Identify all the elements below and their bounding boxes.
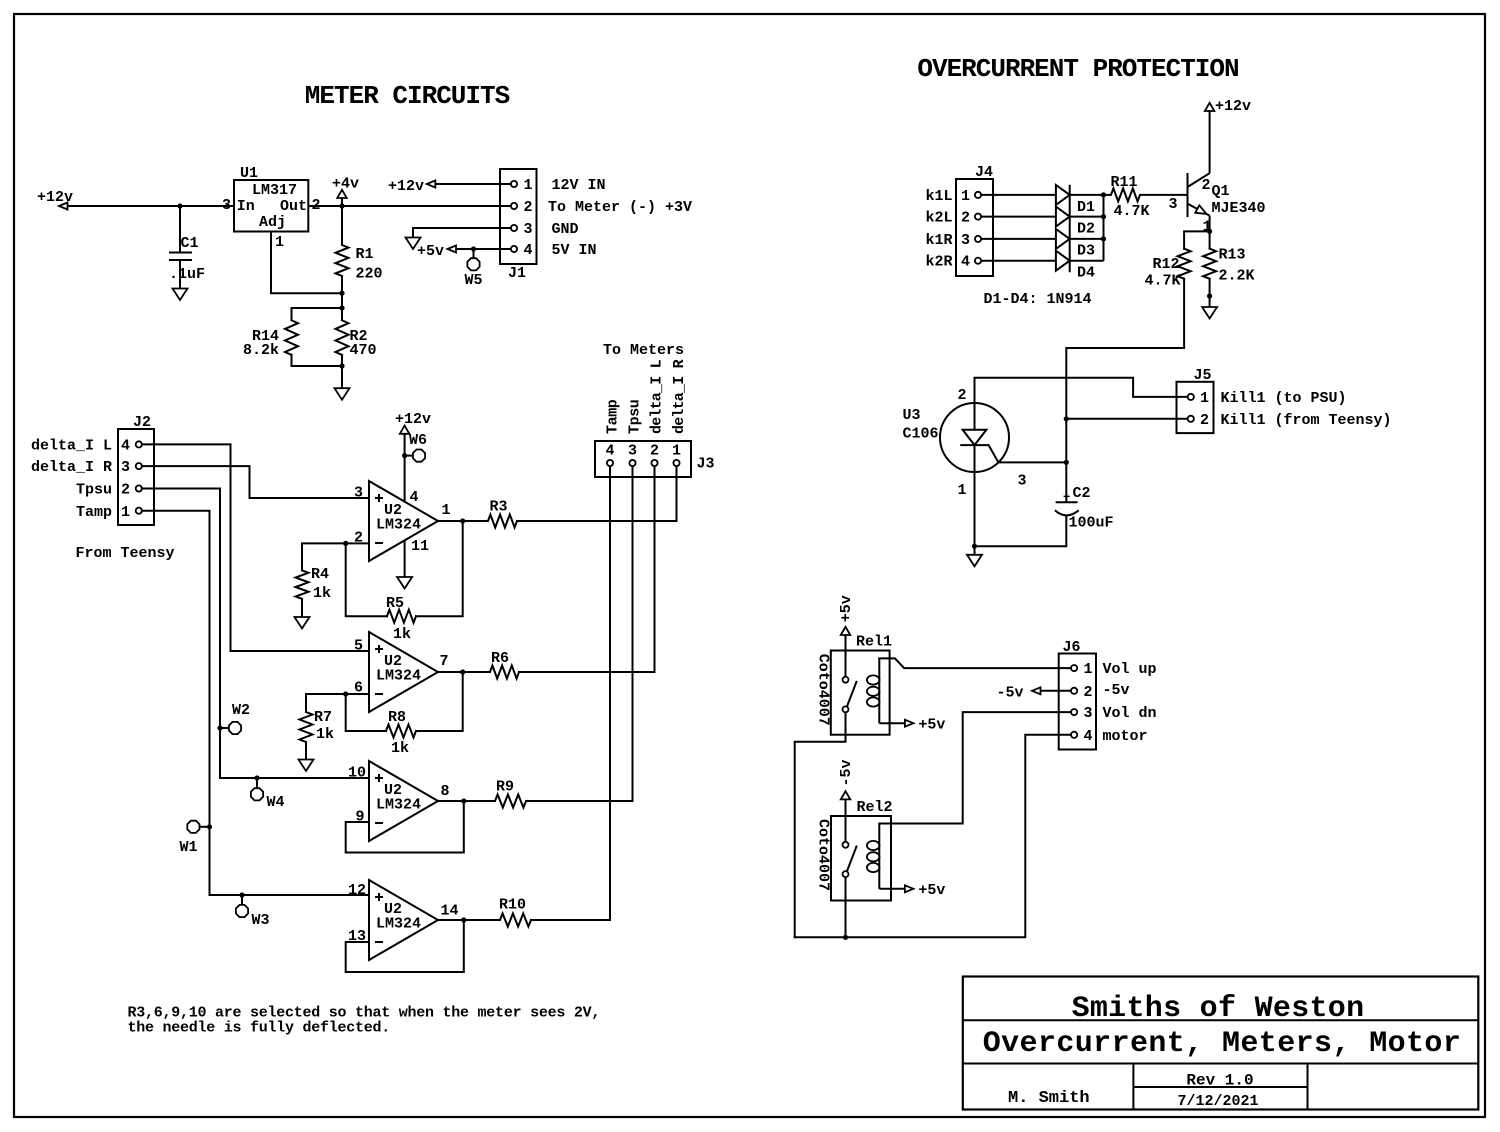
wire R12 down xyxy=(1066,279,1184,419)
junction xyxy=(339,203,344,208)
wire xyxy=(1140,194,1188,196)
svg-text:1k: 1k xyxy=(393,626,411,643)
title block divider xyxy=(1307,1064,1309,1110)
thyristor triangle xyxy=(963,430,987,445)
junction xyxy=(471,246,476,251)
svg-text:2: 2 xyxy=(961,210,970,227)
pin circle J4-2 xyxy=(975,214,981,220)
junction xyxy=(207,824,212,829)
resistor R8 xyxy=(386,725,416,738)
svg-text:7/12/2021: 7/12/2021 xyxy=(1177,1093,1258,1110)
wire output xyxy=(438,800,495,802)
junction xyxy=(1101,192,1106,197)
wire xyxy=(200,826,210,828)
svg-text:4: 4 xyxy=(605,443,614,460)
svg-text:Rev 1.0: Rev 1.0 xyxy=(1186,1072,1253,1090)
svg-text:the needle is fully deflected.: the needle is fully deflected. xyxy=(128,1020,391,1037)
svg-text:Out: Out xyxy=(280,198,307,215)
svg-text:R7: R7 xyxy=(314,709,332,726)
svg-text:3: 3 xyxy=(524,221,533,238)
resistor R12 xyxy=(1178,249,1191,279)
junction xyxy=(177,203,182,208)
svg-text:+5v: +5v xyxy=(417,243,444,260)
jumper W6 xyxy=(413,450,425,462)
svg-text:GND: GND xyxy=(552,221,579,238)
svg-text:R12: R12 xyxy=(1152,256,1179,273)
svg-text:k2L: k2L xyxy=(926,210,953,227)
wire xyxy=(473,249,475,258)
svg-text:1: 1 xyxy=(442,502,451,519)
svg-text:MJE340: MJE340 xyxy=(1212,200,1266,217)
svg-text:2: 2 xyxy=(650,443,659,460)
resistor R11 xyxy=(1111,188,1140,201)
svg-text:3: 3 xyxy=(121,459,130,476)
svg-text:D2: D2 xyxy=(1077,221,1095,238)
pin circle J1-4 xyxy=(511,246,517,252)
svg-text:R1: R1 xyxy=(356,246,374,263)
wire output xyxy=(438,520,488,522)
wire xyxy=(519,466,655,672)
svg-text:12: 12 xyxy=(348,882,366,899)
wire xyxy=(341,308,343,320)
wire xyxy=(341,293,343,308)
wire xyxy=(981,194,1056,196)
svg-text:From Teensy: From Teensy xyxy=(76,545,175,562)
junction xyxy=(254,775,259,780)
wire xyxy=(1070,238,1104,240)
svg-text:7: 7 xyxy=(440,653,449,670)
svg-text:LM324: LM324 xyxy=(376,517,421,534)
power -5v arrow xyxy=(841,791,851,799)
wire xyxy=(981,238,1056,240)
svg-text:Vol dn: Vol dn xyxy=(1103,705,1157,722)
junction xyxy=(1101,236,1106,241)
junction xyxy=(460,669,465,674)
diode D1 xyxy=(1056,185,1070,205)
ground xyxy=(173,289,188,301)
wire xyxy=(1065,419,1067,463)
svg-text:1: 1 xyxy=(524,177,533,194)
title block divider xyxy=(963,1063,1479,1065)
title block divider xyxy=(963,1019,1479,1021)
svg-text:R3: R3 xyxy=(490,499,508,516)
svg-text:1: 1 xyxy=(1084,661,1093,678)
pin circle J4-4 xyxy=(975,258,981,264)
wire xyxy=(341,366,343,388)
wire xyxy=(879,658,1071,668)
svg-text:Coto4007: Coto4007 xyxy=(815,654,832,726)
op-amp U1 LM317 box xyxy=(234,180,308,232)
wire xyxy=(975,516,1067,547)
svg-text:Tamp: Tamp xyxy=(76,504,112,521)
svg-text:M. Smith: M. Smith xyxy=(1008,1089,1090,1108)
ground xyxy=(295,617,310,629)
svg-text:12V IN: 12V IN xyxy=(552,177,606,194)
wire xyxy=(302,543,346,570)
junction xyxy=(461,917,466,922)
svg-text:R4: R4 xyxy=(311,566,329,583)
svg-text:Q1: Q1 xyxy=(1212,183,1230,200)
pin circle J6-3 xyxy=(1071,709,1077,715)
junction xyxy=(402,453,407,458)
coil Rel1 xyxy=(878,658,880,723)
jumper W1 xyxy=(187,821,199,833)
svg-text:delta_I L: delta_I L xyxy=(31,438,112,455)
pin circle J6-2 xyxy=(1071,688,1077,694)
switch blade xyxy=(847,846,857,872)
wire xyxy=(1209,231,1211,248)
svg-text:+5v: +5v xyxy=(838,595,855,622)
svg-text:4: 4 xyxy=(524,242,533,259)
ground xyxy=(299,760,314,772)
svg-text:D3: D3 xyxy=(1077,243,1095,260)
svg-text:delta_I R: delta_I R xyxy=(31,459,112,476)
wire minus in xyxy=(346,941,369,943)
junction xyxy=(1101,214,1106,219)
svg-text:1: 1 xyxy=(672,443,681,460)
svg-text:3: 3 xyxy=(1084,705,1093,722)
resistor R13 xyxy=(1203,249,1216,279)
wire xyxy=(845,877,847,937)
svg-text:Kill1 (from Teensy): Kill1 (from Teensy) xyxy=(1221,412,1392,429)
wire emitter xyxy=(1209,216,1211,232)
wire xyxy=(292,355,343,366)
svg-text:-5v: -5v xyxy=(997,685,1024,702)
svg-text:Vol up: Vol up xyxy=(1103,661,1157,678)
svg-text:1: 1 xyxy=(1200,390,1209,407)
wire anode xyxy=(975,378,1188,430)
svg-text:+12v: +12v xyxy=(1215,98,1251,115)
power +5v arrow xyxy=(905,885,914,892)
wire output xyxy=(438,671,490,673)
svg-text:470: 470 xyxy=(350,342,377,359)
node -5v arrow xyxy=(1032,687,1041,694)
svg-text:1: 1 xyxy=(961,188,970,205)
resistor R7 xyxy=(300,712,313,742)
svg-text:In: In xyxy=(237,198,255,215)
svg-text:C106: C106 xyxy=(903,426,939,443)
junction xyxy=(339,305,344,310)
wire xyxy=(413,228,511,238)
svg-text:1: 1 xyxy=(121,504,130,521)
pin circle J2-4 xyxy=(136,441,142,447)
pin circle J3-2 xyxy=(651,460,657,466)
node +12v arrow xyxy=(59,203,68,210)
wire xyxy=(879,722,905,724)
svg-text:R9: R9 xyxy=(496,779,514,796)
svg-text:W6: W6 xyxy=(409,432,427,449)
ground xyxy=(335,388,350,400)
svg-text:4: 4 xyxy=(410,489,419,506)
svg-text:W1: W1 xyxy=(180,839,198,856)
wire xyxy=(1070,216,1104,218)
svg-text:4.7K: 4.7K xyxy=(1114,203,1150,220)
wire collector xyxy=(1209,111,1211,173)
svg-text:Tpsu: Tpsu xyxy=(76,482,112,499)
resistor R5 xyxy=(387,610,416,623)
ground xyxy=(397,577,412,589)
svg-text:11: 11 xyxy=(411,538,429,555)
svg-text:Adj: Adj xyxy=(259,214,286,231)
wire xyxy=(1209,296,1211,307)
svg-text:D4: D4 xyxy=(1077,265,1095,282)
wire xyxy=(974,546,976,555)
node +12v arrow xyxy=(427,181,436,188)
junction xyxy=(1207,229,1212,234)
svg-text:motor: motor xyxy=(1103,728,1148,745)
svg-text:2: 2 xyxy=(1084,684,1093,701)
capacitor C2 arc xyxy=(1055,510,1079,515)
wire xyxy=(1070,194,1104,196)
svg-text:D1-D4: 1N914: D1-D4: 1N914 xyxy=(984,291,1092,308)
svg-text:Smiths of Weston: Smiths of Weston xyxy=(1072,992,1365,1026)
svg-text:+5v: +5v xyxy=(918,717,945,734)
svg-text:2.2K: 2.2K xyxy=(1219,268,1255,285)
power +4v xyxy=(337,190,347,198)
wire xyxy=(241,895,243,904)
svg-text:8: 8 xyxy=(441,783,450,800)
wire xyxy=(981,260,1056,262)
wire feedback xyxy=(346,694,386,731)
wire xyxy=(1184,231,1210,248)
wire xyxy=(526,466,633,801)
ground xyxy=(967,555,982,567)
pin circle J1-2 xyxy=(511,203,517,209)
connector J5 box xyxy=(1177,382,1214,433)
svg-text:4: 4 xyxy=(121,438,130,455)
thyristor cathode bar xyxy=(960,444,988,446)
svg-text:Kill1 (to PSU): Kill1 (to PSU) xyxy=(1221,390,1347,407)
pin circle J3-1 xyxy=(673,460,679,466)
diode D4 xyxy=(1056,251,1070,271)
transistor Q1 xyxy=(1187,173,1189,217)
svg-text:U1: U1 xyxy=(240,165,258,182)
wire minus in xyxy=(346,693,369,695)
power +5v arrow xyxy=(841,627,851,635)
resistor R14 xyxy=(285,320,298,355)
capacitor C2 plate xyxy=(1056,501,1078,503)
svg-text:Coto4007: Coto4007 xyxy=(815,819,832,891)
svg-text:delta_I L: delta_I L xyxy=(649,359,666,434)
svg-text:5: 5 xyxy=(354,638,363,655)
pin circle J3-3 xyxy=(629,460,635,466)
junction xyxy=(343,691,348,696)
wire xyxy=(1065,462,1067,502)
wire xyxy=(1209,279,1211,296)
junction xyxy=(1207,293,1212,298)
resistor R10 xyxy=(500,914,531,927)
svg-text:To Meters: To Meters xyxy=(603,342,684,359)
svg-text:To Meter (-) +3V: To Meter (-) +3V xyxy=(548,199,692,216)
connector J3 box xyxy=(595,441,691,477)
pin circle J2-1 xyxy=(136,508,142,514)
svg-text:+12v: +12v xyxy=(388,178,424,195)
wire xyxy=(256,778,258,788)
pin circle J6-4 xyxy=(1071,732,1077,738)
wire xyxy=(301,599,303,617)
svg-text:OVERCURRENT PROTECTION: OVERCURRENT PROTECTION xyxy=(917,54,1238,84)
svg-text:R11: R11 xyxy=(1111,174,1138,191)
pin circle J4-1 xyxy=(975,192,981,198)
diode D2 xyxy=(1056,207,1070,227)
svg-text:2: 2 xyxy=(524,199,533,216)
svg-text:R8: R8 xyxy=(388,709,406,726)
resistor R4 xyxy=(296,570,309,599)
wire xyxy=(416,672,463,731)
jumper W5 xyxy=(467,258,479,270)
svg-text:U3: U3 xyxy=(903,407,921,424)
pin contact xyxy=(843,842,849,848)
switch blade xyxy=(847,681,857,707)
svg-text:+12v: +12v xyxy=(395,411,431,428)
resistor R9 xyxy=(495,795,526,808)
wire output xyxy=(438,919,500,921)
svg-text:R6: R6 xyxy=(491,650,509,667)
wire rail xyxy=(1103,195,1105,261)
svg-text:J1: J1 xyxy=(508,265,526,282)
svg-text:W5: W5 xyxy=(465,272,483,289)
svg-text:R13: R13 xyxy=(1219,247,1246,264)
svg-text:100uF: 100uF xyxy=(1069,515,1114,532)
ground xyxy=(406,238,421,250)
svg-text:3: 3 xyxy=(628,443,637,460)
power pin 4 wire xyxy=(404,434,406,502)
pin circle J1-3 xyxy=(511,225,517,231)
wire delta_I R xyxy=(142,466,369,498)
jumper W3 xyxy=(236,905,248,917)
pin circle J2-3 xyxy=(136,463,142,469)
junction xyxy=(343,541,348,546)
pin circle J1-1 xyxy=(511,181,517,187)
svg-text:J2: J2 xyxy=(133,414,151,431)
thyristor U3 circle xyxy=(940,403,1009,472)
svg-text:Tamp: Tamp xyxy=(605,399,622,434)
wire Tpsu xyxy=(142,489,369,779)
svg-text:k2R: k2R xyxy=(926,254,953,271)
svg-text:2: 2 xyxy=(121,482,130,499)
svg-text:1k: 1k xyxy=(313,585,331,602)
wire xyxy=(845,799,847,841)
junction xyxy=(339,291,344,296)
resistor R1 xyxy=(336,245,349,276)
power +5v arrow xyxy=(905,720,914,727)
wire xyxy=(68,205,235,207)
svg-text:-5v: -5v xyxy=(838,759,855,786)
wire xyxy=(795,712,846,937)
pin circle J4-3 xyxy=(975,236,981,242)
wire xyxy=(405,455,413,457)
wire minus in xyxy=(346,821,369,823)
wire xyxy=(517,466,677,521)
title block divider xyxy=(1132,1064,1134,1110)
wire xyxy=(531,466,610,920)
pin circle J5-1 xyxy=(1188,394,1194,400)
svg-text:3: 3 xyxy=(1018,473,1027,490)
wire xyxy=(341,206,343,245)
wire xyxy=(845,635,847,677)
wire xyxy=(306,694,346,712)
wire xyxy=(308,205,511,207)
junction xyxy=(972,544,977,549)
wire minus in xyxy=(346,542,369,544)
svg-text:D1: D1 xyxy=(1077,199,1095,216)
op-amp U2 section B xyxy=(369,632,438,712)
svg-text:W3: W3 xyxy=(252,912,270,929)
svg-text:J3: J3 xyxy=(697,456,715,473)
connector J4 box xyxy=(956,179,993,276)
wire xyxy=(292,308,343,320)
wire xyxy=(220,727,229,729)
junction xyxy=(1064,460,1069,465)
ground xyxy=(1202,307,1217,319)
junction xyxy=(217,725,222,730)
junction xyxy=(460,518,465,523)
svg-text:14: 14 xyxy=(441,903,459,920)
junction xyxy=(843,935,848,940)
svg-text:delta_I R: delta_I R xyxy=(671,359,688,434)
wire xyxy=(879,888,905,890)
svg-text:3: 3 xyxy=(1169,196,1178,213)
svg-text:LM317: LM317 xyxy=(252,182,297,199)
svg-text:Rel1: Rel1 xyxy=(856,634,892,651)
wire xyxy=(305,742,307,760)
connector J6 box xyxy=(1059,654,1096,750)
pin contact xyxy=(843,871,849,877)
svg-text:4: 4 xyxy=(1084,728,1093,745)
svg-text:W4: W4 xyxy=(267,794,285,811)
wire delta_I L xyxy=(142,444,369,651)
svg-text:R5: R5 xyxy=(386,595,404,612)
svg-text:3: 3 xyxy=(222,197,231,214)
relay Rel2 box xyxy=(831,816,891,901)
wire feedback xyxy=(346,801,464,853)
wire xyxy=(1066,418,1187,420)
wire bottom rail xyxy=(795,735,1071,938)
wire Tamp xyxy=(142,511,369,895)
wire feedback xyxy=(346,920,464,972)
title block divider xyxy=(1133,1086,1307,1088)
wire xyxy=(1070,260,1104,262)
svg-text:220: 220 xyxy=(356,266,383,283)
svg-text:+5v: +5v xyxy=(918,882,945,899)
resistor R2 xyxy=(336,320,349,355)
wire xyxy=(341,276,343,293)
svg-text:k1L: k1L xyxy=(926,188,953,205)
wire xyxy=(416,521,463,616)
wire xyxy=(981,216,1056,218)
junction xyxy=(1064,416,1069,421)
svg-text:METER CIRCUITS: METER CIRCUITS xyxy=(305,81,510,111)
svg-text:3: 3 xyxy=(354,485,363,502)
svg-text:8.2k: 8.2k xyxy=(243,342,279,359)
pin circle J2-2 xyxy=(136,485,142,491)
wire xyxy=(456,248,511,250)
resistor R3 xyxy=(488,515,517,528)
svg-text:LM324: LM324 xyxy=(376,916,421,933)
jumper W4 xyxy=(251,788,263,800)
title block outer xyxy=(963,977,1479,1110)
svg-text:1: 1 xyxy=(958,482,967,499)
svg-text:R10: R10 xyxy=(499,897,526,914)
svg-text:+4v: +4v xyxy=(332,176,359,193)
svg-text:C2: C2 xyxy=(1073,485,1091,502)
pin circle J5-2 xyxy=(1188,416,1194,422)
junction xyxy=(461,798,466,803)
pin contact xyxy=(843,706,849,712)
wire xyxy=(1041,690,1072,692)
svg-text:4: 4 xyxy=(961,254,970,271)
svg-text:1k: 1k xyxy=(391,740,409,757)
